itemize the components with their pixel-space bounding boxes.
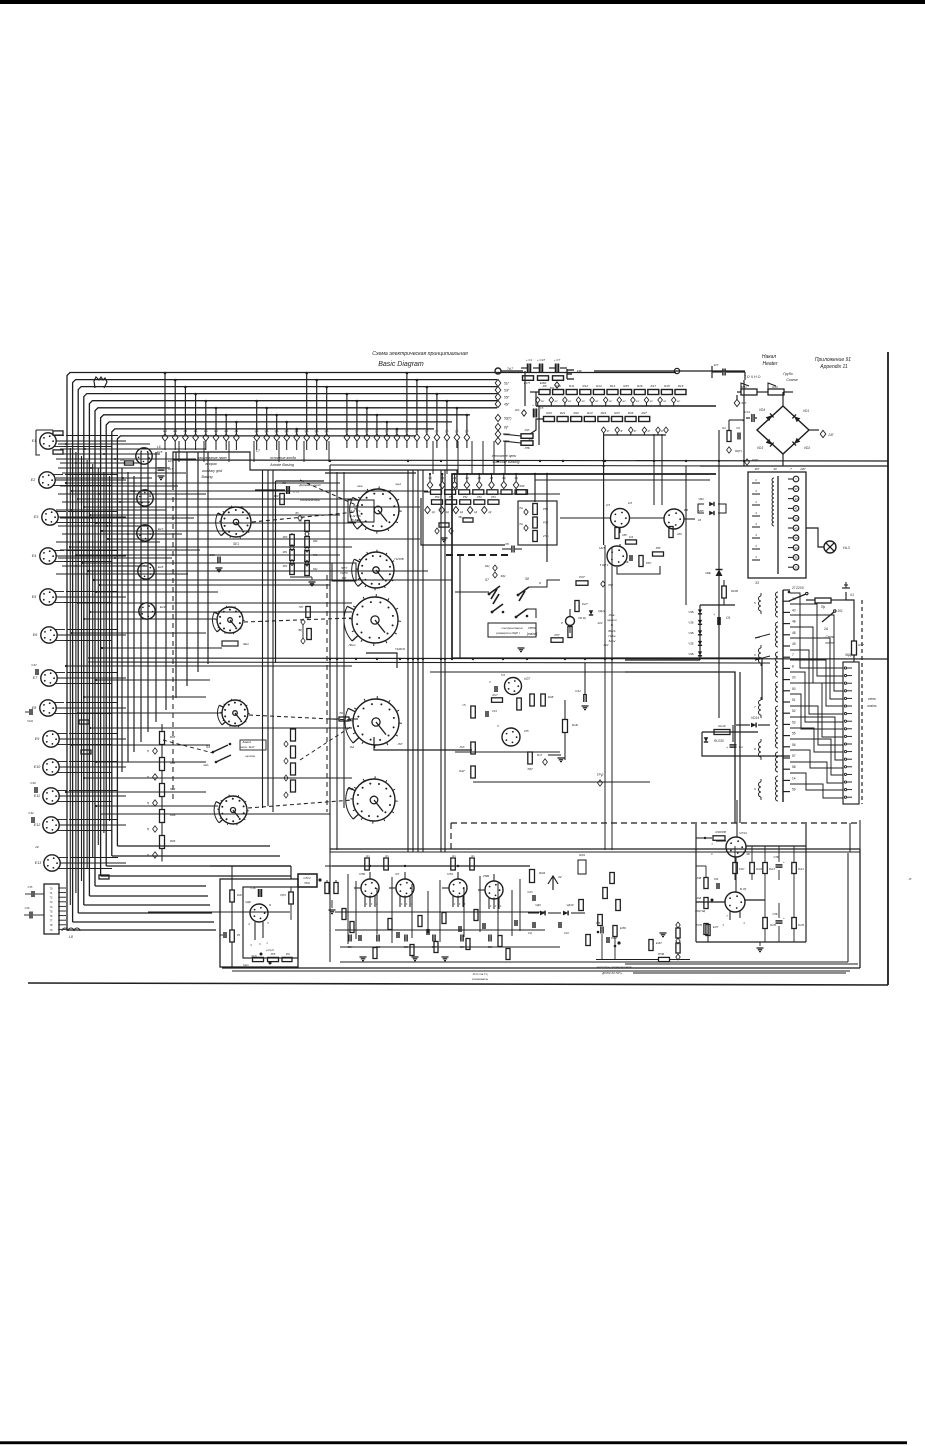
diode VD10 xyxy=(563,911,568,916)
wire diode rail xyxy=(528,912,539,914)
connector pin row2 #5 xyxy=(386,422,388,434)
resistor network right of calib xyxy=(325,883,329,894)
tube ЧЛ leads xyxy=(399,896,401,908)
svg-text:V3Б: V3Б xyxy=(688,652,693,656)
wire xfmr tap 13 to connector xyxy=(790,728,843,752)
svg-text:RU310: RU310 xyxy=(714,739,724,743)
wire bus fan line 6 xyxy=(95,408,497,886)
box auxiliary grid basing xyxy=(173,452,457,490)
svg-text:К.Я: К.Я xyxy=(629,535,633,539)
resistor small r-row #7 xyxy=(515,490,526,495)
toggle S4 xyxy=(213,745,228,752)
resistor R small + cap near bridge xyxy=(727,431,731,442)
wire bus lower stub 10 xyxy=(78,712,222,714)
svg-text:ЗЯ|: ЗЯ| xyxy=(298,629,302,632)
svg-text:C41: C41 xyxy=(575,689,581,693)
svg-text:Р9|*: Р9|* xyxy=(554,633,560,637)
svg-text:30: 30 xyxy=(794,546,798,550)
connector pin row1b #8 xyxy=(326,387,328,434)
svg-text:К22: К22 xyxy=(604,643,609,647)
connector pin row1b #2 xyxy=(266,408,268,434)
box СЗ|С2 dark label xyxy=(298,874,317,887)
wire bus-to-center horizontal 9 xyxy=(70,546,352,548)
box heater transformer xyxy=(748,472,806,578)
svg-text:РнБ: РнБ xyxy=(237,894,242,897)
svg-text:C4: C4 xyxy=(739,745,743,749)
wire SA4 drop xyxy=(366,653,397,668)
svg-text:3Д: 3Д xyxy=(478,476,481,480)
wire output top links xyxy=(736,800,738,837)
wire y480 segment xyxy=(535,479,710,481)
svg-text:R95: R95 xyxy=(170,735,176,739)
wire bus fan line 3 xyxy=(78,387,497,913)
svg-text:Е10: Е10 xyxy=(34,765,40,769)
box mid right border xyxy=(625,672,735,800)
grid pin row3 #3 xyxy=(452,481,458,488)
resistor stub E10 xyxy=(81,750,91,754)
wire bus interleaved vertical 1 xyxy=(69,448,71,905)
svg-text:7: 7 xyxy=(792,653,794,657)
svg-text:VD1: VD1 xyxy=(803,409,809,413)
svg-text:сеть: сеть xyxy=(528,626,536,630)
winding W2 xyxy=(776,622,779,647)
svg-text:VЛБ: VЛБ xyxy=(359,872,365,876)
svg-text:C2О: C2О xyxy=(527,890,532,894)
wire xfmr tap 17 to connector xyxy=(790,773,843,790)
svg-text:40: 40 xyxy=(792,608,796,612)
wire bus-to-center horizontal 1 xyxy=(66,482,340,484)
svg-text:20: 20 xyxy=(792,676,796,680)
svg-text:60(Г): 60(Г) xyxy=(735,449,742,453)
connector pin row1b #3 xyxy=(276,415,278,434)
wire vertical x654 x662 xyxy=(653,434,655,505)
resistor R119 xyxy=(714,730,730,735)
switch S2 bar xyxy=(222,641,238,646)
wire vertical x719 xyxy=(718,430,720,718)
resistor small r-row #6 xyxy=(501,490,512,495)
svg-text:Anode Basing: Anode Basing xyxy=(269,463,295,467)
svg-text:сеточные цепи: сеточные цепи xyxy=(492,454,517,458)
connector pin row2 #7 xyxy=(406,373,408,434)
svg-text:С95: С95 xyxy=(596,922,601,925)
wire bus fan line 7 xyxy=(101,415,470,876)
wire bus interleaved vertical 2 xyxy=(75,452,77,893)
svg-text:накаливание ламп: накаливание ламп xyxy=(197,456,226,460)
wire bus inner vertical 11 xyxy=(207,452,209,664)
grid pin row3 #2 xyxy=(440,481,446,488)
svg-text:58: 58 xyxy=(792,765,796,769)
wire vertical x686 xyxy=(685,466,687,605)
svg-text:IЗ: IЗ xyxy=(909,877,912,881)
wire bus interleaved vertical 7 xyxy=(103,472,105,833)
svg-text:Coarse: Coarse xyxy=(786,378,798,382)
wire bus inner vertical 8 xyxy=(175,452,177,698)
svg-text:X1: X1 xyxy=(849,593,854,597)
dashed link S2-SA3 xyxy=(244,618,351,622)
tube VL6 xyxy=(664,509,684,529)
resistor box R85 R90 R27 xyxy=(518,501,557,545)
tube E18 circle xyxy=(138,563,154,579)
resistor R47 right xyxy=(852,641,857,655)
wire bus fan line 1 xyxy=(67,373,676,931)
ground E symbol xyxy=(566,369,568,379)
svg-text:45: 45 xyxy=(794,526,798,530)
wire bus elbow 9 xyxy=(112,855,280,857)
svg-text:R|04: R|04 xyxy=(579,853,585,857)
svg-text:IЛ9Б: IЛ9Б xyxy=(483,874,490,878)
wire bus lower stub 1 xyxy=(96,591,218,593)
svg-text:IЛ5: IЛ5 xyxy=(524,729,529,733)
wire VL4-VL6 links xyxy=(619,528,621,533)
svg-text:51Г: 51Г xyxy=(504,382,510,386)
winding W8 xyxy=(776,776,779,801)
zener RU310 xyxy=(704,737,708,742)
resistor КЯ horizontal xyxy=(626,540,637,544)
svg-text:R14: R14 xyxy=(610,384,616,388)
rc cluster right of amp band xyxy=(600,927,602,934)
resistor ЛЗ top xyxy=(305,521,310,532)
connector pin row1 #4 xyxy=(195,394,197,434)
winding W7 xyxy=(776,752,779,772)
wire bus elbow 3 xyxy=(78,912,212,914)
svg-text:VЛ7: VЛ7 xyxy=(524,677,530,681)
svg-text:R10: R10 xyxy=(555,384,561,388)
svg-text:R1: R1 xyxy=(722,426,726,430)
svg-text:R24: R24 xyxy=(601,411,607,415)
connector pin col 53Г xyxy=(495,386,501,393)
wire row B left xyxy=(530,419,543,434)
connector pin row1b #5 xyxy=(296,429,298,434)
sync block outline xyxy=(452,474,716,658)
wire bus inner vertical 7 xyxy=(165,452,167,710)
wire bus-to-center horizontal 7 xyxy=(102,530,330,532)
resistor Р|Р4 calib right xyxy=(289,892,294,904)
svg-text:СН9: СН9 xyxy=(27,719,33,723)
svg-text:5|: 5| xyxy=(147,853,149,857)
wire amp input rail xyxy=(325,865,355,867)
svg-text:R25: R25 xyxy=(614,411,620,415)
svg-text:VБ5: VБ5 xyxy=(698,509,704,513)
svg-text:27т: 27т xyxy=(542,534,549,538)
svg-text:VЛ9: VЛ9 xyxy=(447,872,453,876)
block RU310 VD14 xyxy=(702,732,790,756)
amp plate resistors xyxy=(365,858,370,870)
resistor stub E9 xyxy=(79,720,89,724)
wire stubs Е8 xyxy=(66,702,118,704)
svg-text:V3Б: V3Б xyxy=(688,642,693,646)
ground VL8 xyxy=(558,757,565,759)
resistor Е17Г xyxy=(706,925,710,936)
svg-text:Р53: Р53 xyxy=(477,495,482,499)
resistor small r-row #4 xyxy=(473,490,484,495)
svg-text:Appendix 11: Appendix 11 xyxy=(819,364,848,370)
wire bus inner vertical 4 xyxy=(140,452,142,742)
resistor row4 #4 xyxy=(474,500,485,505)
svg-text:49: 49 xyxy=(792,642,796,646)
sheet bottom border xyxy=(28,983,888,985)
svg-text:Пере: Пере xyxy=(608,634,616,638)
svg-text:VБ4: VБ4 xyxy=(698,497,704,501)
winding core line xyxy=(777,476,779,574)
coil L6 E15 xyxy=(136,448,152,464)
calibrator bottom resistors xyxy=(253,957,264,961)
svg-text:Р4З: Р4З xyxy=(525,428,530,432)
wire bus elbow 7 xyxy=(101,875,291,877)
svg-text:R82: R82 xyxy=(283,565,288,568)
wire bus elbow 6 xyxy=(95,885,206,887)
diode VD2 xyxy=(792,438,800,446)
svg-text:C2|: C2| xyxy=(528,931,532,935)
svg-text:Р: Р xyxy=(561,621,563,625)
svg-text:51: 51 xyxy=(792,698,796,702)
svg-text:вторая: вторая xyxy=(205,462,217,466)
svg-text:S7: S7 xyxy=(485,578,489,582)
svg-text:auxiliary grid: auxiliary grid xyxy=(202,469,223,473)
svg-text:Е|В|: Е|В| xyxy=(577,369,582,373)
wire long mid rail y458 xyxy=(173,460,888,461)
tube socket Е8 xyxy=(40,700,56,716)
svg-text:8: 8 xyxy=(792,664,794,668)
svg-text:L8: L8 xyxy=(69,935,73,939)
tube socket Е10 xyxy=(43,759,59,775)
svg-text:Basing: Basing xyxy=(202,475,213,479)
diamond 35|2 xyxy=(601,581,606,587)
svg-text:ЛБ|: ЛБ| xyxy=(457,516,462,519)
output cap C3Б + xyxy=(776,864,783,866)
tube VЛБ (audio amp) xyxy=(361,879,379,897)
toggle S8 xyxy=(518,587,529,595)
svg-text:3Д: 3Д xyxy=(453,476,456,480)
svg-text:53: 53 xyxy=(792,720,796,724)
svg-text:R81: R81 xyxy=(283,551,288,554)
svg-text:НО|: НО| xyxy=(515,408,520,412)
switch S right 101 xyxy=(822,612,834,622)
grid pin row3 #7 xyxy=(501,481,507,488)
wire long rail y658 xyxy=(88,658,888,659)
svg-text:5|: 5| xyxy=(147,749,149,753)
output resistors lower Рн7Б xyxy=(763,918,768,929)
svg-text:мулти: мулти xyxy=(607,618,617,622)
svg-text:R39: R39 xyxy=(520,484,525,488)
svg-text:РЗО: РЗО xyxy=(646,561,651,565)
ground output xyxy=(757,947,764,949)
tube ЧЛ (audio amp) xyxy=(396,879,414,897)
wire xfmr tap 1 to connector xyxy=(790,593,843,668)
wire bottom-left joins xyxy=(148,911,290,913)
svg-text:R1Б7: R1Б7 xyxy=(716,830,723,834)
resistor R108 xyxy=(722,586,727,598)
svg-text:R22: R22 xyxy=(573,411,579,415)
amp dashed boundary xyxy=(451,822,858,824)
resistors R85 R90 R27 column xyxy=(533,504,538,515)
wire nest right staircase xyxy=(761,658,763,700)
amp bottom rc row xyxy=(348,935,350,942)
resistor R167 xyxy=(713,836,725,841)
diamond 60Г xyxy=(727,447,732,453)
wire bus fan line 2 xyxy=(73,380,497,922)
wire bus inner vertical 9 xyxy=(186,452,188,686)
svg-text:2А: 2А xyxy=(823,627,828,631)
wire bus fan line 4 xyxy=(84,394,497,905)
svg-text:VD3: VD3 xyxy=(757,446,763,450)
tube VL5 xyxy=(607,546,627,566)
right limiter resistors xyxy=(579,900,584,911)
capacitor ПБ anode basing xyxy=(286,486,288,494)
dot marks sync xyxy=(502,611,505,614)
resistor ЛБ2 small xyxy=(463,518,473,522)
svg-text:4Б: 4Б xyxy=(792,620,796,624)
fuse FP xyxy=(815,598,831,603)
svg-text:Rч7: Rч7 xyxy=(492,693,497,697)
wire stubs Е2 xyxy=(65,474,118,476)
wire stubs Е6 xyxy=(67,629,118,631)
calibrator inner box xyxy=(243,887,298,958)
cap П6 xyxy=(511,546,513,553)
wire top rail to cap chain xyxy=(594,370,745,372)
wire verticals feeding amp x600-640 xyxy=(604,545,606,850)
svg-text:НЬ5: НЬ5 xyxy=(599,546,605,550)
svg-text:VD14: VD14 xyxy=(751,716,759,720)
svg-text:R|04: R|04 xyxy=(539,871,546,875)
capacitor calib left lower xyxy=(223,932,225,938)
amp ground symbols xyxy=(412,956,419,958)
cap C19 xyxy=(485,711,487,717)
wire bus lower stub 7 xyxy=(66,665,352,667)
svg-text:Е6: Е6 xyxy=(33,633,37,637)
svg-text:45Г: 45Г xyxy=(504,403,510,407)
svg-text:V3Б: V3Б xyxy=(688,631,693,635)
wire left band cross wires xyxy=(58,443,150,445)
wire xfmr tap 6 to connector xyxy=(790,650,843,714)
svg-text:RнБ: RнБ xyxy=(572,723,578,727)
power transformer core xyxy=(782,590,784,802)
cap C heater in xyxy=(722,369,724,376)
cap chain C1 C47 C7 xyxy=(527,364,529,373)
wire bus inner vertical 1 xyxy=(121,468,123,772)
resistor R47 under VL8 xyxy=(528,752,533,764)
connector pin row2 #12 xyxy=(456,408,458,434)
svg-text:Р50: Р50 xyxy=(435,495,440,499)
amp band right verticals xyxy=(847,853,849,962)
svg-text:S8: S8 xyxy=(525,577,529,581)
svg-text:R21: R21 xyxy=(560,411,566,415)
svg-text:1Д: 1Д xyxy=(488,511,491,514)
box around rows xyxy=(421,498,505,545)
resistor small r-row #2 xyxy=(445,490,456,495)
diode VD12 xyxy=(589,610,593,615)
wire stubs Е9 xyxy=(69,733,118,735)
resistor chain x293 (R93-R94) xyxy=(291,729,296,741)
svg-text:C6: C6 xyxy=(736,426,740,430)
resistor R4БЗ column left xyxy=(704,878,708,889)
terminal circle 7Г xyxy=(495,368,501,374)
svg-text:Б IЗ|: Б IЗ| xyxy=(740,887,746,891)
svg-text:Rч7: Rч7 xyxy=(537,753,542,757)
terminal strip ticks xyxy=(783,589,790,591)
wire xfmr tap 11 to connector xyxy=(790,706,843,745)
svg-text:Е1Б7: Е1Б7 xyxy=(656,942,662,945)
svg-text:I7I-ФГУг: I7I-ФГУг xyxy=(351,518,363,522)
wire bus fan line 5 xyxy=(89,401,497,896)
tube VL7 xyxy=(505,678,522,695)
wire bridge right out xyxy=(809,429,819,431)
wire transformer to lamp xyxy=(806,528,824,547)
wire bus-to-center horizontal 6 xyxy=(96,522,356,524)
amp grid rail xyxy=(332,865,530,867)
svg-text:Е18: Е18 xyxy=(158,565,164,569)
diamond 24Г xyxy=(820,430,826,437)
wire bus interleaved vertical 8 xyxy=(109,476,111,821)
wire bus lower stub 8 xyxy=(96,679,210,681)
wire xfmr tap 16 to connector xyxy=(790,762,843,783)
wire bus lower stub 15 xyxy=(66,791,206,793)
svg-text:сглаживать: сглаживать xyxy=(472,977,489,981)
svg-text:33Г: 33Г xyxy=(529,437,534,441)
wire bus lower stub 5 xyxy=(72,632,206,634)
rotary switch SA4 xyxy=(353,699,399,745)
wire bridge bottom rail xyxy=(700,465,888,467)
wire heater rail top xyxy=(712,371,714,373)
svg-text:1Д: 1Д xyxy=(432,511,435,514)
svg-text:ПБ: ПБ xyxy=(282,481,286,485)
wire VL8 bottom rail xyxy=(473,781,650,783)
svg-text:9,6: 9,6 xyxy=(684,508,689,512)
svg-text:C19: C19 xyxy=(492,709,497,713)
svg-text:41: 41 xyxy=(794,507,798,511)
wire 64Г rail xyxy=(625,659,700,661)
wire xfmr tap 10 to connector xyxy=(790,694,843,729)
dashed link S1-SA1 xyxy=(252,512,356,522)
svg-text:Е15: Е15 xyxy=(168,459,173,463)
connector pin row2 #4 xyxy=(376,415,378,434)
svg-text:ЛЗБ: ЛЗБ xyxy=(523,446,529,450)
svg-text:ДОЛЖ 60-70Гц: ДОЛЖ 60-70Гц xyxy=(601,971,622,975)
svg-text:ГГТ1: ГГТ1 xyxy=(293,491,299,494)
tube socket Е1 xyxy=(40,433,56,449)
rotary switch S1 xyxy=(221,507,251,537)
hand pointer mark xyxy=(94,377,107,388)
dot Б5 diamond xyxy=(298,515,302,521)
resistor РнО vertical xyxy=(568,627,572,638)
resistor R44 left xyxy=(492,698,503,703)
svg-text:VД12: VД12 xyxy=(598,609,606,613)
wire bus lower stub 3 xyxy=(90,611,352,613)
bus verticals x262-273 xyxy=(262,470,264,808)
svg-text:Кат: Кат xyxy=(243,963,249,967)
svg-text:In: In xyxy=(611,623,614,627)
diamond НО(Г) + cap C5 xyxy=(522,410,527,416)
svg-text:R20: R20 xyxy=(546,411,552,415)
resistor block col1 (R80 R81 R82) xyxy=(290,535,295,546)
svg-text:R47: R47 xyxy=(858,643,864,647)
svg-text:8|Г: 8|Г xyxy=(504,426,509,430)
svg-text:СЗБ: СЗБ xyxy=(773,913,778,916)
page bottom rule xyxy=(0,1441,907,1444)
wire bus lower stub 11 xyxy=(90,727,352,729)
wire bus lower stub 12 xyxy=(72,744,210,746)
tube VL8 xyxy=(502,728,520,746)
svg-text:Б: Б xyxy=(269,903,271,907)
tube VL10 (calibrator) xyxy=(250,904,268,922)
svg-text:55Г: 55Г xyxy=(504,396,510,400)
svg-text:33: 33 xyxy=(794,566,798,570)
connector pin row2 #3 xyxy=(366,408,368,434)
svg-text:R15: R15 xyxy=(623,384,629,388)
svg-text:основные анода: основные анода xyxy=(270,456,296,460)
wire bus elbow 4 xyxy=(84,904,210,906)
resistor near E1 top xyxy=(53,431,63,435)
capacitor C4Б xyxy=(629,555,631,561)
